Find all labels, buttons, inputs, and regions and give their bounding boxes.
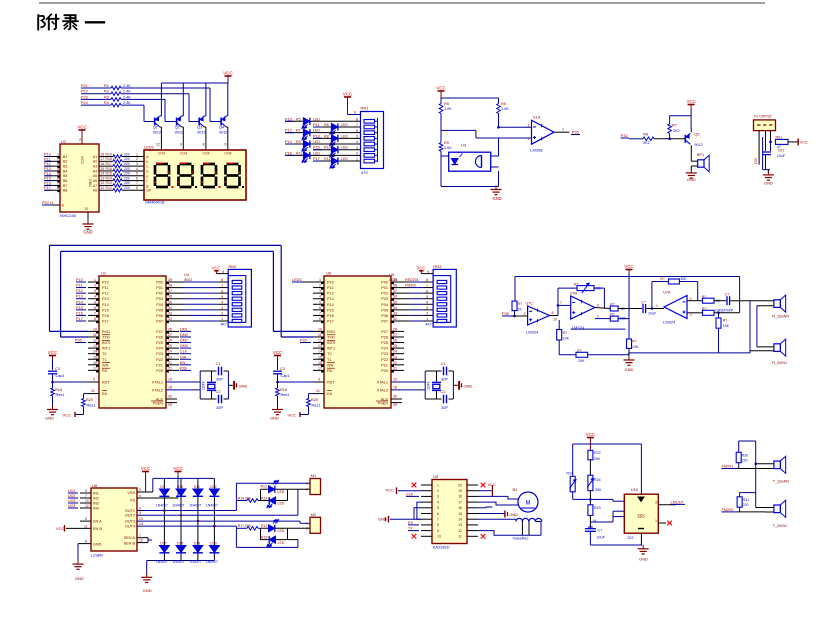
svg-text:17: 17	[458, 500, 462, 504]
svg-text:LM358: LM358	[530, 148, 543, 153]
svg-text:2: 2	[528, 137, 530, 141]
svg-text:UO2: UO2	[68, 494, 75, 498]
svg-text:P01: P01	[381, 286, 388, 290]
svg-text:RXD: RXD	[327, 330, 335, 334]
svg-text:VCC: VCC	[343, 92, 353, 97]
svg-text:29: 29	[393, 403, 397, 407]
svg-text:R15: R15	[106, 172, 112, 176]
svg-text:R?: R?	[518, 302, 523, 306]
svg-text:Res1: Res1	[56, 393, 65, 397]
svg-text:A7: A7	[93, 184, 97, 188]
svg-text:VS: VS	[130, 498, 136, 502]
svg-text:23: 23	[393, 355, 397, 359]
svg-text:8: 8	[85, 540, 87, 544]
svg-text:26: 26	[393, 339, 397, 343]
svg-text:13K: 13K	[723, 324, 730, 328]
svg-text:RED201: RED201	[405, 278, 419, 282]
svg-text:P26: P26	[381, 335, 388, 339]
svg-text:31: 31	[91, 389, 95, 393]
svg-text:C01: C01	[778, 149, 785, 153]
svg-text:P17: P17	[102, 319, 109, 323]
svg-text:P32: P32	[300, 339, 307, 343]
svg-text:INT0: INT0	[102, 341, 110, 345]
svg-text:a: a	[147, 155, 149, 159]
svg-text:CO4: CO4	[158, 152, 165, 156]
svg-text:U7B: U7B	[570, 292, 578, 296]
svg-text:R6: R6	[501, 102, 506, 106]
svg-text:P02: P02	[156, 292, 163, 296]
svg-text:UO1: UO1	[68, 489, 75, 493]
svg-text:220: 220	[124, 162, 130, 166]
svg-text:1N4007: 1N4007	[206, 504, 218, 508]
svg-text:D9: D9	[160, 485, 164, 489]
svg-text:PSEN: PSEN	[378, 401, 389, 405]
svg-text:5: 5	[85, 489, 87, 493]
svg-text:R_MOU: R_MOU	[772, 360, 787, 365]
svg-text:10: 10	[318, 327, 322, 331]
svg-text:P03: P03	[156, 297, 163, 301]
svg-text:4: 4	[57, 167, 59, 171]
svg-text:GND: GND	[45, 416, 54, 421]
svg-text:1N4007: 1N4007	[189, 504, 201, 508]
svg-text:7: 7	[437, 518, 439, 522]
svg-text:WR: WR	[102, 363, 109, 367]
svg-text:R23: R23	[594, 506, 601, 510]
svg-text:4: 4	[139, 494, 141, 498]
svg-text:LM324: LM324	[526, 330, 539, 335]
svg-text:7: 7	[221, 284, 223, 288]
svg-text:220: 220	[124, 176, 130, 180]
svg-text:D12: D12	[210, 485, 216, 489]
svg-text:T0: T0	[327, 352, 331, 356]
svg-text:22: 22	[393, 361, 397, 365]
svg-text:5: 5	[437, 506, 439, 510]
svg-text:A2: A2	[93, 160, 97, 164]
svg-text:P26: P26	[156, 335, 163, 339]
svg-text:XTAL2: XTAL2	[152, 388, 163, 392]
svg-text:X1 CRYST: X1 CRYST	[754, 115, 773, 119]
svg-text:8: 8	[437, 523, 439, 527]
svg-text:220: 220	[124, 172, 130, 176]
svg-text:VCC: VCC	[586, 432, 596, 437]
svg-text:4: 4	[426, 300, 428, 304]
svg-text:P04: P04	[156, 303, 163, 307]
svg-text:D17: D17	[160, 542, 166, 546]
svg-text:D18: D18	[177, 542, 183, 546]
svg-text:P03: P03	[381, 297, 388, 301]
svg-text:6: 6	[57, 177, 59, 181]
svg-text:U1A: U1A	[533, 115, 541, 120]
svg-text:LED: LED	[341, 157, 348, 161]
svg-text:C3: C3	[55, 367, 60, 371]
svg-text:Q5: Q5	[694, 133, 699, 137]
svg-text:18: 18	[458, 495, 462, 499]
svg-text:24: 24	[168, 350, 172, 354]
svg-text:14: 14	[101, 172, 105, 176]
svg-text:11: 11	[84, 524, 88, 528]
svg-text:4K7: 4K7	[426, 322, 432, 326]
svg-text:220: 220	[124, 186, 130, 190]
svg-text:R20: R20	[86, 398, 93, 402]
svg-text:220: 220	[124, 152, 130, 156]
svg-text:P16: P16	[76, 311, 83, 315]
svg-text:1.0K: 1.0K	[501, 107, 509, 111]
svg-text:LED: LED	[278, 541, 285, 545]
svg-text:TXD: TXD	[102, 335, 110, 339]
svg-text:P16: P16	[285, 151, 292, 155]
svg-text:R?: R?	[563, 331, 568, 335]
svg-text:24: 24	[393, 350, 397, 354]
svg-text:7: 7	[136, 181, 138, 185]
svg-text:28: 28	[168, 327, 172, 331]
svg-text:R18: R18	[106, 157, 112, 161]
svg-text:15: 15	[93, 355, 97, 359]
svg-text:P21: P21	[81, 84, 88, 88]
svg-text:R8: R8	[324, 134, 329, 138]
svg-text:15: 15	[101, 167, 105, 171]
svg-text:4: 4	[319, 295, 321, 299]
svg-text:39: 39	[168, 278, 172, 282]
svg-text:R?: R?	[702, 295, 707, 299]
svg-text:EN B: EN B	[93, 527, 102, 531]
svg-text:19: 19	[393, 378, 397, 382]
svg-text:R1: R1	[104, 84, 109, 88]
svg-text:17: 17	[101, 157, 105, 161]
svg-text:1: 1	[306, 482, 308, 486]
svg-text:P23: P23	[81, 95, 88, 99]
svg-text:R11: R11	[296, 151, 302, 155]
svg-text:IN4: IN4	[93, 506, 99, 510]
svg-text:R16,20K: R16,20K	[238, 496, 252, 500]
svg-text:R21: R21	[566, 471, 573, 475]
svg-text:LED: LED	[313, 129, 320, 133]
svg-text:13: 13	[318, 344, 322, 348]
svg-text:P24: P24	[81, 101, 88, 105]
svg-text:A6: A6	[93, 179, 97, 183]
svg-text:13: 13	[101, 176, 105, 180]
svg-text:12: 12	[458, 529, 462, 533]
svg-text:38: 38	[168, 284, 172, 288]
svg-text:11: 11	[101, 186, 105, 190]
svg-text:R18: R18	[280, 388, 287, 392]
svg-text:Q3: Q3	[197, 126, 202, 130]
svg-text:R17,20K: R17,20K	[238, 524, 252, 528]
svg-text:12: 12	[85, 504, 89, 508]
svg-text:2K2: 2K2	[673, 129, 680, 133]
svg-text:RN2: RN2	[228, 264, 237, 269]
svg-text:VCC: VCC	[80, 156, 85, 165]
svg-text:1: 1	[94, 278, 96, 282]
svg-text:P13: P13	[44, 167, 51, 171]
svg-text:DM1: DM1	[180, 327, 188, 331]
svg-text:C3: C3	[280, 367, 285, 371]
svg-text:1: 1	[562, 128, 564, 132]
svg-text:16: 16	[458, 506, 462, 510]
svg-text:P23: P23	[381, 352, 388, 356]
svg-text:LED: LED	[313, 117, 320, 121]
svg-text:OUT4: OUT4	[125, 525, 135, 529]
svg-text:8: 8	[552, 311, 554, 315]
svg-text:P20: P20	[156, 369, 163, 373]
svg-text:6: 6	[94, 306, 96, 310]
svg-text:9012: 9012	[219, 131, 227, 135]
svg-text:10: 10	[437, 535, 441, 539]
svg-text:OUT3: OUT3	[125, 520, 135, 524]
svg-text:1N4007: 1N4007	[173, 504, 185, 508]
svg-text:GND: GND	[83, 230, 92, 235]
svg-text:PSEN: PSEN	[153, 401, 164, 405]
svg-text:27: 27	[393, 333, 397, 337]
svg-text:35: 35	[393, 300, 397, 304]
svg-text:19: 19	[168, 378, 172, 382]
svg-text:30: 30	[393, 395, 397, 399]
svg-text:P06: P06	[156, 314, 163, 318]
svg-text:18: 18	[101, 152, 105, 156]
svg-text:P14: P14	[285, 140, 292, 144]
svg-text:8021: 8021	[389, 278, 397, 282]
svg-text:VCC: VCC	[624, 264, 634, 269]
svg-text:M: M	[526, 501, 531, 507]
svg-text:31: 31	[316, 389, 320, 393]
svg-text:9: 9	[222, 270, 224, 274]
svg-text:5: 5	[426, 295, 428, 299]
svg-text:1K: 1K	[592, 519, 597, 523]
svg-text:B5: B5	[63, 174, 67, 178]
svg-text:3: 3	[139, 511, 141, 515]
svg-text:8: 8	[221, 278, 223, 282]
svg-text:P15: P15	[44, 177, 51, 181]
svg-text:CO4: CO4	[180, 152, 187, 156]
svg-text:22: 22	[168, 361, 172, 365]
svg-text:10K: 10K	[563, 337, 570, 341]
svg-text:33: 33	[393, 311, 397, 315]
svg-text:IN1: IN1	[93, 491, 99, 495]
svg-text:32: 32	[393, 317, 397, 321]
svg-text:B7: B7	[63, 184, 67, 188]
svg-text:470: 470	[361, 170, 368, 175]
svg-text:2: 2	[306, 488, 308, 492]
svg-text:9: 9	[180, 143, 182, 147]
svg-text:1K: 1K	[518, 308, 523, 312]
svg-text:2K1: 2K1	[643, 141, 650, 145]
svg-text:P14: P14	[44, 172, 51, 176]
svg-text:P12: P12	[76, 289, 83, 293]
svg-text:74HC245: 74HC245	[59, 213, 77, 218]
svg-text:T1: T1	[327, 358, 331, 362]
svg-text:P07: P07	[156, 319, 163, 323]
svg-text:P32: P32	[621, 133, 629, 138]
svg-text:R5: R5	[444, 102, 449, 106]
svg-text:GND: GND	[270, 416, 279, 421]
svg-text:3: 3	[94, 289, 96, 293]
svg-text:1: 1	[656, 304, 658, 308]
svg-text:11: 11	[318, 333, 322, 337]
svg-text:R18: R18	[55, 388, 62, 392]
svg-text:23: 23	[168, 355, 172, 359]
svg-text:P10: P10	[102, 281, 109, 285]
svg-text:P12: P12	[102, 292, 109, 296]
svg-text:2: 2	[94, 284, 96, 288]
svg-text:Res1: Res1	[87, 404, 96, 408]
svg-text:2: 2	[221, 312, 223, 316]
svg-text:37: 37	[168, 289, 172, 293]
svg-text:R?: R?	[702, 307, 707, 311]
svg-text:P10: P10	[285, 117, 292, 121]
svg-text:C?: C?	[641, 301, 646, 305]
svg-text:R6: R6	[324, 123, 329, 127]
svg-text:5: 5	[136, 172, 138, 176]
svg-text:GND: GND	[687, 177, 696, 182]
svg-text:CLK: CLK	[406, 492, 414, 496]
svg-text:2.4K: 2.4K	[123, 84, 131, 88]
svg-text:R01: R01	[776, 136, 783, 140]
svg-text:P22: P22	[156, 358, 163, 362]
svg-text:RST: RST	[102, 381, 110, 385]
svg-text:R4: R4	[104, 101, 109, 105]
svg-text:1: 1	[221, 317, 223, 321]
svg-text:4: 4	[437, 500, 439, 504]
svg-text:9: 9	[354, 111, 356, 115]
svg-text:6: 6	[225, 143, 227, 147]
svg-text:C1: C1	[216, 362, 221, 366]
svg-text:Cap1: Cap1	[56, 374, 65, 378]
svg-text:4: 4	[94, 295, 96, 299]
svg-text:BP1: BP1	[697, 153, 704, 157]
svg-text:R10: R10	[324, 146, 331, 150]
svg-text:GND: GND	[510, 513, 519, 517]
svg-text:16: 16	[318, 361, 322, 365]
svg-text:37: 37	[393, 289, 397, 293]
svg-text:10: 10	[85, 499, 89, 503]
svg-text:LED: LED	[341, 123, 348, 127]
svg-text:19: 19	[458, 489, 462, 493]
svg-text:13: 13	[458, 523, 462, 527]
svg-text:13: 13	[93, 344, 97, 348]
svg-text:29: 29	[168, 403, 172, 407]
svg-text:VCC: VCC	[56, 526, 65, 531]
svg-text:P02: P02	[381, 292, 388, 296]
svg-text:C7: C7	[598, 529, 603, 533]
svg-text:20K: 20K	[594, 457, 601, 461]
svg-text:INT0: INT0	[327, 341, 335, 345]
svg-text:P13: P13	[76, 295, 83, 299]
svg-text:P07: P07	[381, 319, 388, 323]
svg-text:1: 1	[426, 317, 428, 321]
svg-text:P16: P16	[44, 181, 51, 185]
svg-text:GND: GND	[88, 179, 92, 187]
svg-text:B1: B1	[63, 155, 67, 159]
svg-text:XTAL1: XTAL1	[377, 381, 388, 385]
svg-text:32: 32	[168, 317, 172, 321]
svg-text:17: 17	[93, 366, 97, 370]
svg-text:3: 3	[136, 162, 138, 166]
svg-text:9012: 9012	[197, 131, 205, 135]
svg-text:13: 13	[139, 517, 143, 521]
svg-text:g: g	[147, 184, 149, 188]
svg-text:R3: R3	[104, 95, 109, 99]
svg-text:1: 1	[136, 152, 138, 156]
svg-text:R?: R?	[723, 319, 728, 323]
svg-text:P2B: P2B	[180, 366, 187, 370]
svg-text:2.4K: 2.4K	[123, 101, 131, 105]
svg-text:25: 25	[393, 344, 397, 348]
svg-text:28: 28	[393, 327, 397, 331]
svg-text:B4: B4	[63, 169, 67, 173]
svg-text:P17: P17	[76, 317, 83, 321]
svg-text:R?: R?	[632, 340, 637, 344]
svg-text:17: 17	[318, 366, 322, 370]
svg-text:LED: LED	[278, 490, 285, 494]
svg-text:LED: LED	[313, 151, 320, 155]
svg-text:U1: U1	[101, 271, 107, 276]
svg-text:9: 9	[427, 270, 429, 274]
svg-text:VCC: VCC	[212, 266, 221, 271]
svg-text:3: 3	[524, 312, 526, 316]
svg-text:R16: R16	[106, 167, 112, 171]
svg-text:3: 3	[690, 313, 692, 317]
svg-text:P24: P24	[156, 347, 163, 351]
svg-text:10: 10	[93, 327, 97, 331]
svg-text:220: 220	[124, 181, 130, 185]
svg-text:RXD: RXD	[102, 330, 110, 334]
svg-text:3: 3	[655, 501, 657, 505]
svg-text:KA2281D: KA2281D	[433, 545, 450, 550]
svg-text:220: 220	[124, 167, 130, 171]
svg-text:VCC: VCC	[273, 350, 283, 355]
svg-text:2.4K: 2.4K	[123, 90, 131, 94]
svg-text:D19: D19	[194, 542, 200, 546]
svg-text:R?: R?	[610, 313, 615, 317]
svg-text:36: 36	[393, 295, 397, 299]
svg-text:P15: P15	[327, 308, 334, 312]
svg-text:30P: 30P	[216, 406, 223, 410]
svg-text:P04: P04	[381, 303, 388, 307]
svg-text:A8: A8	[93, 189, 97, 193]
svg-text:1.0K: 1.0K	[444, 146, 452, 150]
svg-text:e: e	[147, 174, 149, 178]
svg-text:VCC: VCC	[77, 125, 87, 130]
svg-text:VCC: VCC	[141, 466, 151, 471]
svg-text:30: 30	[168, 395, 172, 399]
svg-text:R9: R9	[296, 140, 301, 144]
svg-text:13K: 13K	[632, 345, 639, 349]
svg-text:Cap1: Cap1	[281, 374, 290, 378]
svg-text:1.0K: 1.0K	[444, 107, 452, 111]
svg-text:P27: P27	[156, 330, 163, 334]
svg-text:11M9: 11M9	[202, 382, 206, 390]
svg-text:C2: C2	[216, 390, 221, 394]
svg-text:8: 8	[57, 186, 59, 190]
svg-text:P10: P10	[76, 278, 83, 282]
svg-text:P10: P10	[44, 153, 51, 157]
svg-text:U10: U10	[631, 487, 639, 492]
svg-text:10UF: 10UF	[596, 535, 606, 539]
svg-text:36: 36	[168, 295, 172, 299]
svg-text:Q4: Q4	[219, 126, 224, 130]
svg-text:C2: C2	[441, 390, 446, 394]
svg-text:IN3: IN3	[93, 501, 99, 505]
svg-text:WR: WR	[327, 363, 334, 367]
svg-text:P12: P12	[327, 292, 334, 296]
svg-text:2: 2	[57, 157, 59, 161]
svg-text:LED: LED	[341, 146, 348, 150]
svg-text:7: 7	[426, 284, 428, 288]
svg-text:6: 6	[437, 512, 439, 516]
svg-text:R9: R9	[444, 141, 449, 145]
svg-text:2: 2	[437, 489, 439, 493]
svg-text:B2: B2	[63, 160, 67, 164]
svg-text:P11: P11	[76, 284, 82, 288]
